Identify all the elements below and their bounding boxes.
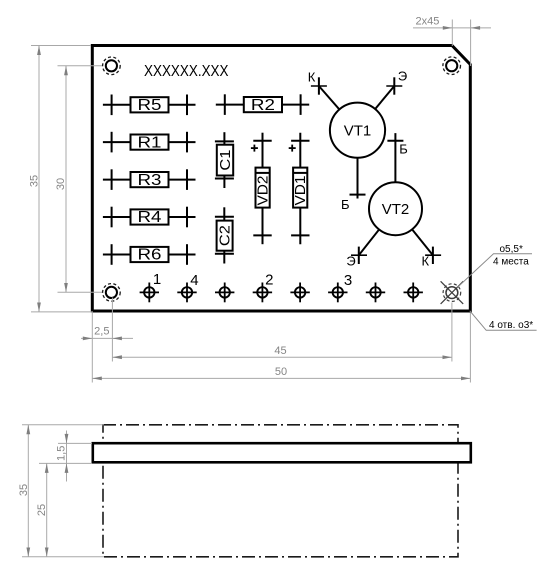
dimension 50 [92, 313, 470, 383]
pad 2 [253, 283, 272, 303]
leader hole note o5,5 4 places [458, 254, 533, 287]
leader note 4 holes o3 [470, 311, 537, 331]
svg-text:50: 50 [275, 366, 287, 378]
svg-text:R2: R2 [251, 97, 275, 114]
svg-text:C2: C2 [217, 225, 234, 246]
side dimension 25 [46, 463, 48, 556]
hole bottom-left [103, 284, 121, 302]
svg-text:VT2: VT2 [382, 201, 410, 218]
svg-text:4: 4 [190, 272, 198, 289]
svg-text:Б: Б [399, 142, 408, 157]
svg-text:R3: R3 [138, 172, 162, 189]
svg-text:1: 1 [153, 271, 161, 288]
resistor R5 [103, 95, 196, 116]
transistor VT1 [311, 77, 402, 198]
pad 3 [328, 283, 347, 303]
resistor R1 [103, 132, 196, 153]
svg-text:35: 35 [18, 484, 30, 496]
svg-text:25: 25 [36, 504, 48, 516]
svg-text:VT1: VT1 [344, 122, 372, 139]
pad 3rd [215, 283, 234, 303]
svg-text:35: 35 [29, 175, 41, 187]
side view dashed body [103, 425, 458, 557]
svg-text:2,5: 2,5 [94, 325, 109, 337]
hole top-left [103, 57, 121, 75]
svg-text:К: К [308, 70, 316, 85]
side view pcb plate [93, 443, 471, 462]
svg-text:Э: Э [346, 254, 355, 269]
svg-text:Б: Б [341, 197, 350, 212]
resistor R4 [103, 207, 196, 228]
dimension 30 left (hole spacing) [58, 66, 103, 292]
resistor R6 [103, 244, 196, 265]
side dimension 35 [22, 425, 104, 557]
svg-text:2x45: 2x45 [416, 16, 440, 28]
resistor R2 [216, 94, 309, 115]
svg-text:45: 45 [274, 345, 286, 357]
board outline [92, 46, 470, 312]
svg-text:К: К [422, 254, 430, 269]
svg-text:4 отв. о3*: 4 отв. о3* [489, 320, 533, 331]
diode VD1 [289, 133, 310, 245]
svg-text:3: 3 [344, 272, 352, 289]
dimension 45 [112, 303, 452, 362]
capacitor C2 [215, 207, 234, 263]
hole bottom-right (marked, 4 places) [441, 281, 464, 304]
svg-text:R4: R4 [138, 209, 162, 226]
dimension 2x45 chamfer [413, 20, 491, 67]
pad 7th [366, 283, 385, 303]
svg-text:4 места: 4 места [493, 256, 529, 267]
svg-text:VD1: VD1 [292, 176, 309, 206]
svg-text:1,5: 1,5 [56, 446, 68, 461]
transistor VT2 [351, 133, 441, 264]
pad 4 [177, 283, 196, 303]
resistor R3 [103, 169, 196, 190]
svg-text:R6: R6 [138, 247, 162, 264]
dimension 35 left (board height) [31, 46, 93, 312]
svg-text:Э: Э [398, 69, 407, 84]
svg-text:R5: R5 [138, 97, 162, 114]
svg-text:XXXXXX.XXX: XXXXXX.XXX [144, 63, 229, 80]
diode VD2 [251, 133, 272, 245]
hole top-right [443, 57, 461, 75]
svg-text:VD2: VD2 [254, 176, 271, 206]
dimension 2,5 [81, 298, 133, 362]
svg-text:R1: R1 [138, 134, 162, 151]
pad 5th [290, 283, 309, 303]
side dimension 1,5 [39, 431, 92, 482]
svg-text:30: 30 [55, 178, 67, 190]
svg-text:2: 2 [265, 272, 273, 289]
pad 8th [404, 283, 423, 303]
svg-text:C1: C1 [217, 150, 234, 171]
svg-text:о5,5*: о5,5* [500, 244, 523, 255]
pad 1 [140, 283, 159, 303]
capacitor C1 [215, 132, 234, 188]
